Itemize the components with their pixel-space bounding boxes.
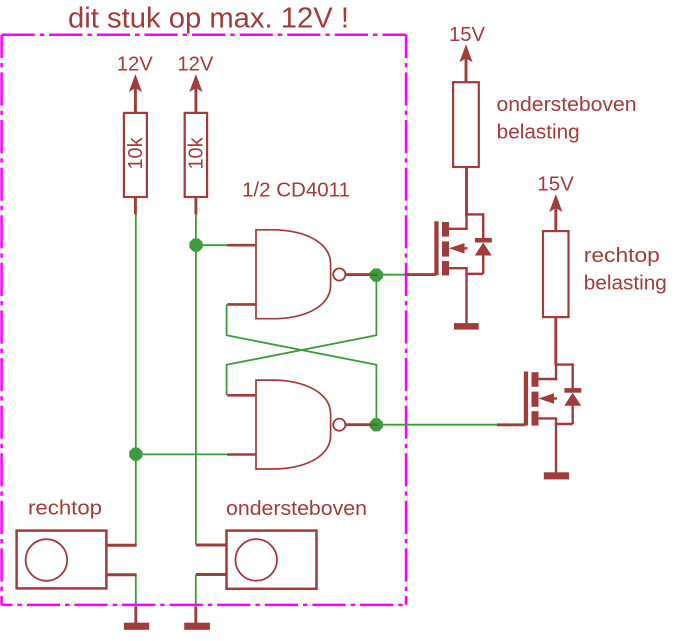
label 12V (left) (117, 53, 154, 75)
label 12V (right) (177, 53, 214, 75)
MOSFET Q1 (upper) (405, 213, 468, 323)
label 15V (right) (537, 174, 574, 196)
supply arrow 12V (left) (129, 74, 142, 113)
ground (below switch S1) (124, 606, 149, 629)
junction at NAND2 output (370, 418, 383, 431)
label "ondersteboven belasting" (497, 94, 637, 143)
wire: NAND1 output down (cross-couple) (227, 275, 377, 396)
value label 10k (R2, rotated) (186, 137, 208, 170)
wire: junction A down to switch S1 (135, 454, 137, 545)
svg-text:belasting: belasting (497, 121, 580, 143)
supply arrow 12V (right) (189, 74, 202, 113)
label 1/2 CD4011 (242, 180, 350, 202)
label "ondersteboven" (switch S2) (226, 498, 367, 520)
svg-text:ondersteboven: ondersteboven (497, 94, 637, 116)
svg-text:rechtop: rechtop (584, 245, 660, 267)
label 15V (top) (449, 24, 486, 46)
wire: R1 bottom to junction A (135, 214, 137, 455)
svg-text:10k: 10k (125, 137, 147, 170)
resistor R1 10k (124, 113, 147, 214)
label "rechtop belasting" (584, 245, 667, 295)
NAND gate U1B (227, 380, 374, 469)
svg-text:12V: 12V (117, 53, 154, 75)
svg-text:ondersteboven: ondersteboven (226, 498, 367, 520)
svg-text:12V: 12V (177, 53, 214, 75)
label "rechtop" (switch S1) (28, 498, 102, 520)
value label 10k (R1, rotated) (125, 137, 147, 170)
supply arrow 15V (right) (549, 194, 562, 232)
pushbutton switch S2 (ondersteboven) (196, 531, 317, 589)
resistor R2 10k (185, 113, 207, 214)
svg-text:15V: 15V (537, 174, 574, 196)
svg-text:belasting: belasting (584, 272, 667, 294)
junction B (node at R2 / NAND1 in1) (189, 239, 202, 252)
supply arrow 15V (top) (459, 44, 472, 83)
ground (below Q2 source) (544, 472, 569, 479)
wire: switch S1 bottom to ground (135, 575, 137, 604)
junction A (node at R1 / NAND2 in2) (129, 448, 142, 461)
svg-text:dit stuk op max. 12V !: dit stuk op max. 12V ! (68, 2, 349, 34)
pushbutton switch S1 (rechtop) (17, 531, 137, 589)
junction at NAND1 output (370, 269, 383, 282)
wire: NAND1 output junction to Q1 gate (377, 274, 405, 276)
svg-text:15V: 15V (449, 24, 486, 46)
svg-text:10k: 10k (186, 137, 208, 170)
load resistor (rechtop belasting) (543, 231, 569, 365)
ground (below Q1 source) (454, 323, 479, 330)
wire: switch S2 bottom to ground (195, 575, 197, 605)
NAND gate U1A (227, 230, 374, 319)
title label "dit stuk op max. 12V !" (68, 2, 349, 34)
wire: NAND2 output up (cross-couple) (227, 304, 377, 424)
svg-text:1/2 CD4011: 1/2 CD4011 (242, 180, 350, 202)
ground (below switch S2) (184, 606, 210, 629)
wire: R2 bottom through junction B down to switch S2 (195, 214, 197, 545)
svg-text:rechtop: rechtop (28, 498, 102, 520)
wire: junction B to NAND1 input 1 (196, 244, 228, 246)
load resistor (ondersteboven belasting) (453, 82, 479, 215)
wire: NAND2 output junction to Q2 gate (377, 424, 498, 426)
body diode of Q1 (465, 213, 492, 274)
wire: junction A to NAND2 input 2 (136, 453, 228, 455)
body diode of Q2 (555, 363, 582, 424)
MOSFET Q2 (lower) (497, 363, 557, 473)
max-12V boundary box (magenta dash-dot frame) (2, 35, 406, 605)
